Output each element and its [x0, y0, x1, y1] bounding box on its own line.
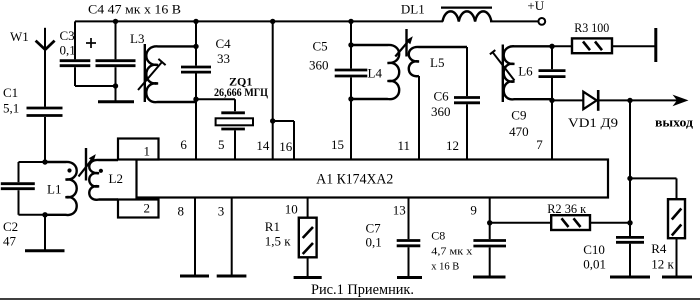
wire R2 left — [490, 222, 552, 224]
antenna W1 — [44, 28, 46, 107]
wire right column — [629, 100, 631, 236]
wire R2 right — [590, 222, 630, 224]
svg-text:+U: +U — [527, 0, 544, 13]
wire C7 to ground — [408, 247, 410, 276]
svg-text:L6: L6 — [518, 64, 533, 79]
svg-text:L3: L3 — [130, 31, 144, 46]
svg-text:360: 360 — [309, 58, 329, 73]
variable coupling arrow L1-L2 — [79, 160, 92, 176]
svg-text:11: 11 — [398, 138, 411, 153]
svg-text:5,1: 5,1 — [3, 101, 19, 116]
trimmer mark L3 — [138, 62, 162, 90]
output arrow — [630, 99, 681, 101]
node diode out — [627, 98, 632, 103]
svg-text:C7: C7 — [366, 221, 382, 236]
svg-text:470: 470 — [509, 124, 528, 139]
svg-text:R4: R4 — [651, 241, 667, 256]
svg-text:А1 К174ХА2: А1 К174ХА2 — [316, 172, 393, 188]
wire C8 to ground — [489, 248, 491, 277]
bottom border line — [0, 298, 700, 300]
svg-text:0,1: 0,1 — [366, 235, 382, 250]
svg-text:C8: C8 — [431, 229, 445, 243]
wire rail to C5 — [350, 21, 352, 68]
node C5 top — [348, 42, 353, 47]
svg-text:13: 13 — [393, 202, 406, 217]
svg-text:5: 5 — [218, 137, 225, 152]
svg-text:C2: C2 — [3, 219, 18, 234]
svg-text:C4 47 мк x 16 В: C4 47 мк x 16 В — [88, 1, 181, 16]
ground left — [25, 249, 65, 252]
svg-text:26,666 МГЦ: 26,666 МГЦ — [214, 85, 269, 99]
wire to R4 — [630, 177, 677, 179]
ground below C4 electrolytic — [98, 100, 134, 103]
svg-text:C10: C10 — [583, 242, 605, 257]
capacitor C4 33 — [195, 46, 197, 65]
core L4-L5 — [405, 29, 407, 57]
capacitor C4 electrolytic 47uk — [115, 21, 117, 59]
svg-text:VD1 Д9: VD1 Д9 — [568, 115, 618, 130]
pin tab 1 — [118, 139, 159, 160]
core L3 — [144, 44, 146, 102]
wire diode to node — [599, 99, 630, 101]
svg-text:10: 10 — [285, 201, 298, 216]
svg-text:R1: R1 — [265, 219, 280, 234]
wire C1 to L1 node — [44, 117, 46, 162]
svg-text:14: 14 — [256, 138, 270, 153]
crystal ZQ1 — [221, 111, 245, 114]
svg-text:R2 36 к: R2 36 к — [547, 201, 587, 216]
capacitor C2 — [1, 182, 35, 185]
svg-text:x 16 В: x 16 В — [431, 261, 459, 273]
polarity dot L1 — [67, 168, 71, 172]
op-amp U1 A1 K174XA2 body — [137, 160, 609, 198]
wire pin16 branch — [273, 120, 294, 122]
inductor L5 — [409, 47, 467, 76]
ground pin3 — [217, 275, 247, 278]
wire pin3 — [231, 198, 233, 276]
svg-text:C5: C5 — [313, 39, 328, 54]
wire pin14 — [272, 21, 274, 159]
svg-text:0,01: 0,01 — [583, 257, 606, 272]
node rail-C4el — [113, 19, 118, 24]
svg-text:8: 8 — [178, 203, 185, 218]
capacitor C1 — [27, 107, 63, 110]
node L6 top — [549, 44, 554, 49]
svg-text:3: 3 — [218, 203, 225, 218]
trimmer mark L6 — [493, 52, 515, 80]
wire pin6 — [195, 99, 197, 159]
wire to ground left — [44, 215, 46, 250]
inductor L3 — [146, 46, 196, 102]
core L6 — [502, 45, 504, 103]
svg-text:L1: L1 — [47, 182, 61, 197]
ground R1 — [294, 276, 322, 279]
capacitor C5 — [335, 69, 368, 72]
svg-text:2: 2 — [144, 200, 151, 215]
inductor DL1 — [443, 11, 492, 21]
ground C7 — [397, 276, 422, 279]
svg-text:Рис.1 Приемник.: Рис.1 Приемник. — [311, 282, 414, 298]
svg-text:15: 15 — [331, 137, 344, 152]
node A C1-L1 — [42, 159, 47, 164]
node rail-pin14 — [270, 19, 275, 24]
svg-text:C6: C6 — [434, 89, 450, 104]
capacitor C10 — [616, 236, 644, 239]
wire L6 to R3 — [552, 45, 571, 47]
wire R4 to ground — [676, 238, 678, 276]
diode VD1 — [583, 92, 596, 110]
capacitor C8 — [473, 239, 506, 242]
node L3 top — [193, 44, 198, 49]
svg-text:1: 1 — [144, 143, 151, 158]
wire pin13 — [408, 198, 410, 240]
wire pin8 — [194, 198, 196, 276]
variable coupling arrow L4-L5 — [395, 42, 407, 56]
node pin14 branch — [270, 118, 275, 123]
svg-text:C4: C4 — [216, 36, 232, 51]
wire pin11 — [418, 76, 420, 160]
pin tab 2 — [118, 200, 159, 218]
transformer core L1-L2 — [85, 148, 87, 181]
svg-text:L2: L2 — [109, 171, 123, 186]
node R4 branch — [627, 176, 632, 181]
node rail-C5 — [348, 19, 353, 24]
svg-text:W1: W1 — [10, 29, 29, 44]
terminal +U — [538, 18, 545, 25]
svg-text:4,7 мк х: 4,7 мк х — [431, 246, 473, 258]
wire C5 to pin15 — [350, 78, 352, 160]
wire top supply rail right segment — [490, 20, 539, 22]
ground C10 — [610, 276, 650, 279]
svg-text:выход: выход — [655, 116, 694, 130]
svg-text:360: 360 — [431, 104, 451, 119]
inductor L1 — [45, 162, 77, 215]
capacitor C6 — [466, 47, 468, 96]
svg-text:9: 9 — [470, 202, 477, 217]
svg-text:R3 100: R3 100 — [574, 20, 609, 35]
inductor L4 — [351, 45, 399, 99]
node R2-C10 — [627, 220, 632, 225]
wire pin10 — [307, 198, 309, 218]
svg-text:C3: C3 — [60, 28, 75, 43]
svg-text:L5: L5 — [430, 55, 444, 70]
node B L1 bottom — [42, 212, 47, 217]
svg-text:6: 6 — [180, 137, 187, 152]
inductor L2 — [89, 160, 118, 200]
wire L6bottom to diode — [552, 99, 583, 101]
wire pin7 — [551, 100, 553, 159]
node rail-L3col — [193, 19, 198, 24]
inductor L6 — [504, 46, 552, 99]
resistor R3 — [572, 38, 612, 53]
resistor R2 — [551, 215, 590, 230]
node C5 bottom — [348, 96, 353, 101]
terminal bar R3 — [654, 28, 657, 62]
resistor R4 — [668, 199, 685, 238]
svg-text:0,1: 0,1 — [60, 43, 76, 58]
capacitor C7 — [397, 239, 421, 242]
svg-text:7: 7 — [536, 137, 543, 152]
ground R4 — [662, 276, 692, 279]
ground C8 — [473, 276, 506, 279]
wire node to crystal — [196, 98, 235, 100]
polarity dot L2 — [99, 169, 103, 173]
svg-text:C9: C9 — [511, 108, 526, 123]
node C3-C4el bottom — [113, 83, 118, 88]
node L3 bottom — [193, 97, 198, 102]
capacitor C9 — [551, 46, 553, 69]
wire pin9 — [489, 198, 491, 240]
wire C2 to bottom node — [18, 190, 20, 215]
wire pin5 — [234, 130, 236, 159]
wire rail to L3 top node — [195, 21, 197, 46]
svg-text:47: 47 — [3, 234, 17, 249]
capacitor C3 — [74, 21, 76, 59]
svg-text:L4: L4 — [368, 66, 383, 81]
svg-text:DL1: DL1 — [401, 2, 425, 17]
svg-text:33: 33 — [217, 51, 230, 66]
wire top supply rail left segment — [75, 20, 443, 22]
svg-text:12 к: 12 к — [651, 257, 674, 272]
node L6 bottom — [549, 98, 554, 103]
wire R1 to ground — [307, 257, 309, 276]
wire R3 right — [612, 45, 655, 47]
ground pin8 — [180, 275, 209, 278]
svg-text:12: 12 — [446, 138, 459, 153]
resistor R1 — [299, 218, 317, 258]
svg-text:C1: C1 — [3, 85, 18, 100]
node pin9-R2 — [487, 220, 492, 225]
svg-text:16: 16 — [279, 139, 293, 154]
wire node to C2 branch — [19, 161, 46, 163]
svg-text:1,5 к: 1,5 к — [265, 233, 292, 248]
